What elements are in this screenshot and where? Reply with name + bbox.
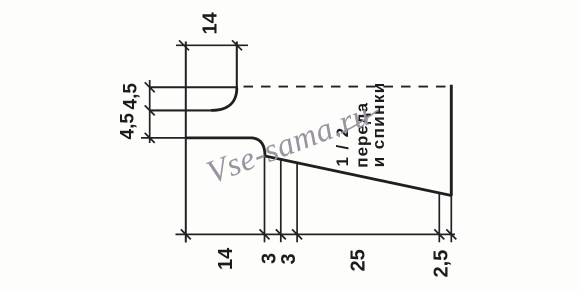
bottom dimension line [176, 233, 456, 235]
svg-text:2,5: 2,5 [431, 250, 453, 278]
svg-text:4,5: 4,5 [118, 113, 139, 140]
tick bottom 2 [260, 229, 270, 239]
top dimension line (14) [176, 44, 248, 46]
svg-text:14: 14 [215, 247, 237, 270]
extension line x=451.3 (below slant) [450, 196, 452, 242]
garment bottom edge with rounded corner and slant [186, 138, 452, 196]
svg-text:14: 14 [200, 11, 222, 34]
extension line x=264.5 [264, 155, 266, 242]
tick bottom 4 [292, 229, 302, 239]
watermark swash flourish [341, 110, 378, 133]
horizontal line y=87 (neck top level) [150, 86, 238, 88]
extension line x=297.1 [296, 162, 298, 242]
svg-text:4,5: 4,5 [121, 83, 142, 110]
tick top-right [232, 40, 242, 50]
extension line x=280.8 [280, 159, 282, 243]
dashed fold line [244, 86, 447, 88]
tick bottom 6 [446, 229, 456, 239]
tick left-bottom [145, 133, 155, 143]
svg-text:3: 3 [278, 253, 300, 264]
tick left-middle [145, 105, 155, 115]
tick left-top [145, 82, 155, 92]
tick bottom 5 [434, 229, 444, 239]
tick bottom 1 [181, 229, 191, 239]
svg-text:25: 25 [348, 249, 370, 271]
left dimension line (vertical, 4,5/4,5) [149, 80, 151, 143]
tick top-left [179, 40, 189, 50]
left extension/garment vertical line [185, 42, 187, 243]
right garment edge [450, 85, 453, 196]
extension line x=439.3 [438, 193, 440, 243]
right vertical of top 14 [236, 42, 238, 91]
extension line y=138 (left of garment) [141, 137, 186, 139]
tick bottom 3 [276, 229, 286, 239]
horizontal line y=110 (shoulder) [150, 109, 212, 111]
neckline curve [211, 88, 237, 110]
